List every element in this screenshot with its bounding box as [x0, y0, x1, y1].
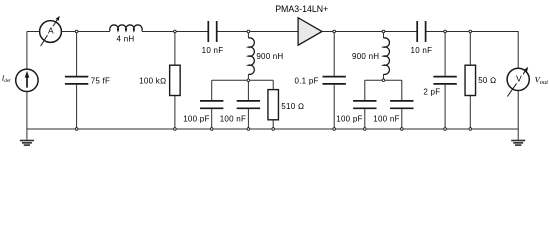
node mid L2 — [247, 79, 250, 82]
wire top rail: capacitor C7 to right corner, down to voltmeter — [426, 32, 519, 69]
svg-text:100 nF: 100 nF — [220, 114, 246, 123]
node top C5 — [333, 30, 336, 33]
wire top rail: inductor L1 to capacitor C2 — [142, 31, 209, 33]
resistor R3 50 — [465, 65, 476, 95]
wire capacitor C10 upper — [444, 32, 446, 76]
svg-text:A: A — [48, 25, 54, 35]
wire voltmeter bottom to rail — [517, 91, 519, 129]
wire inductor L3 top lead — [383, 32, 385, 39]
node bottom C5 — [333, 128, 336, 131]
wire cluster1 horizontal — [212, 79, 274, 81]
wire top rail: ammeter to inductor L1 — [62, 31, 110, 33]
node bottom C4 — [247, 128, 250, 131]
wire top rail: left corner to ammeter — [27, 31, 40, 33]
wire resistor R3 lower — [469, 96, 471, 130]
resistor R2 510 — [268, 90, 279, 120]
svg-text:510 Ω: 510 Ω — [281, 102, 304, 111]
wire capacitor C4 upper — [247, 80, 249, 100]
node top C10 — [444, 30, 447, 33]
wire capacitor C9 upper — [401, 80, 403, 100]
capacitor C3 100pF — [200, 101, 223, 108]
capacitor C5 0.1pF — [323, 77, 346, 84]
wire capacitor C9 lower — [401, 109, 403, 129]
node bottom R3 — [469, 128, 472, 131]
wire capacitor C10 lower — [444, 85, 446, 129]
svg-text:900 nH: 900 nH — [256, 52, 283, 61]
node bottom R1 — [174, 128, 177, 131]
capacitor C1 75fF — [65, 77, 88, 84]
wire branch capacitor C1 upper — [76, 32, 78, 76]
inductor L2 900nH — [248, 38, 254, 75]
ammeter A1 — [40, 20, 62, 46]
wire ground stem left — [26, 129, 28, 140]
wire capacitor C3 lower — [211, 109, 213, 129]
wire left vertical below source — [26, 91, 28, 129]
wire left vertical above source — [26, 32, 28, 70]
svg-text:4 nH: 4 nH — [117, 34, 135, 43]
wire branch resistor R1 lower — [174, 96, 176, 130]
ground right — [511, 140, 525, 146]
inductor L3 900nH — [384, 38, 390, 75]
capacitor C7 10nF — [417, 21, 425, 42]
wire capacitor C4 lower — [247, 109, 249, 129]
capacitor C10 2pF — [433, 77, 456, 84]
node bottom C9 — [401, 128, 404, 131]
svg-text:100 pF: 100 pF — [183, 114, 209, 123]
node bottom R2 — [272, 128, 275, 131]
node top R3 — [469, 30, 472, 33]
wire capacitor C8 lower — [364, 109, 366, 129]
wire branch capacitor C1 lower — [76, 85, 78, 129]
node top R1 — [174, 30, 177, 33]
wire cluster2 horizontal — [365, 79, 402, 81]
wire resistor R3 upper — [469, 32, 471, 66]
wire branch resistor R1 upper — [174, 32, 176, 66]
voltmeter V1 — [507, 68, 529, 96]
resistor R1 100k — [170, 65, 181, 95]
wire resistor R2 lower — [272, 120, 274, 129]
svg-text:Idet: Idet — [1, 74, 11, 85]
wire ground stem right — [517, 129, 519, 140]
svg-text:V: V — [516, 73, 522, 83]
current source Idet — [16, 69, 38, 91]
wire top rail: capacitor C2 to amplifier input — [217, 31, 298, 33]
wire capacitor C5 lower — [333, 85, 335, 129]
svg-text:Vout: Vout — [535, 74, 549, 86]
capacitor C2 10nF — [208, 21, 216, 42]
node bottom C3 — [210, 128, 213, 131]
wire inductor L3 bottom lead — [383, 74, 385, 80]
svg-text:100 kΩ: 100 kΩ — [139, 76, 166, 85]
node bottom C8 — [364, 128, 367, 131]
svg-text:100 nF: 100 nF — [373, 114, 399, 123]
node top C1 — [75, 30, 78, 33]
wire inductor L2 top lead — [247, 32, 249, 39]
node mid L3 — [382, 79, 385, 82]
node bottom C1 — [75, 128, 78, 131]
node top L3 — [382, 30, 385, 33]
svg-text:50 Ω: 50 Ω — [478, 76, 496, 85]
node top L2 — [247, 30, 250, 33]
wire resistor R2 upper — [272, 80, 274, 89]
op-amp U1 PMA3-14LN+ — [298, 18, 322, 46]
wire top rail: amplifier output to capacitor C7 — [322, 31, 417, 33]
wire capacitor C3 upper — [211, 80, 213, 100]
capacitor C9 100nF — [390, 101, 413, 108]
capacitor C4 100nF — [237, 101, 260, 108]
inductor L1 4nH — [110, 25, 142, 31]
wire capacitor C5 upper — [333, 32, 335, 76]
svg-text:100 pF: 100 pF — [336, 114, 362, 123]
wire capacitor C8 upper — [364, 80, 366, 100]
wire bottom ground rail — [27, 128, 518, 130]
ground left — [20, 140, 34, 146]
svg-text:900 nH: 900 nH — [352, 52, 379, 61]
svg-text:75 fF: 75 fF — [91, 76, 110, 85]
node bottom C10 — [444, 128, 447, 131]
capacitor C8 100pF — [353, 101, 376, 108]
svg-text:10 nF: 10 nF — [411, 46, 433, 55]
svg-text:0.1 pF: 0.1 pF — [295, 76, 319, 85]
svg-text:PMA3-14LN+: PMA3-14LN+ — [275, 4, 328, 14]
svg-text:2 pF: 2 pF — [423, 87, 440, 96]
svg-text:10 nF: 10 nF — [202, 46, 224, 55]
wire inductor L2 bottom lead — [247, 74, 249, 80]
